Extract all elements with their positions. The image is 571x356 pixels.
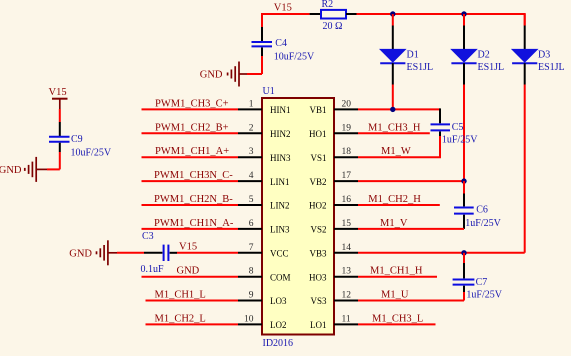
svg-text:HO2: HO2 xyxy=(309,201,327,211)
svg-text:C6: C6 xyxy=(476,204,488,215)
wire D3 cathode to VB3 net xyxy=(524,85,526,253)
svg-text:M1_CH3_L: M1_CH3_L xyxy=(372,313,423,324)
wire pin12 VS3 xyxy=(358,300,464,302)
wire pin19 HO1 xyxy=(358,132,430,134)
svg-text:PWM1_CH2_B+: PWM1_CH2_B+ xyxy=(155,122,229,133)
U1 pin 11 (LO1) xyxy=(334,323,358,325)
svg-text:VS1: VS1 xyxy=(310,153,326,163)
svg-text:R2: R2 xyxy=(322,0,334,10)
svg-text:VB2: VB2 xyxy=(309,177,326,187)
svg-text:C3: C3 xyxy=(142,231,154,242)
svg-text:5: 5 xyxy=(249,195,254,205)
wire net pin 2 xyxy=(142,132,239,134)
svg-text:8: 8 xyxy=(249,267,254,277)
U1 pin 7 (VCC) xyxy=(238,252,262,254)
svg-text:PWM1_CH2N_B-: PWM1_CH2N_B- xyxy=(154,194,233,205)
svg-text:ID2016: ID2016 xyxy=(263,338,294,349)
U1 pin 3 (HIN3) xyxy=(238,156,262,158)
wire pin15 VS2 xyxy=(358,228,464,230)
svg-text:2: 2 xyxy=(249,123,254,133)
wire top rail xyxy=(357,13,525,15)
svg-text:7: 7 xyxy=(249,243,254,253)
power ground GND (at C3) xyxy=(97,240,118,265)
svg-text:C4: C4 xyxy=(275,38,287,49)
capacitor C3 xyxy=(144,252,162,254)
svg-text:GND: GND xyxy=(200,70,223,81)
wire GND to C3 xyxy=(117,252,144,254)
wire top rail corner down xyxy=(524,13,526,26)
svg-text:V15: V15 xyxy=(49,87,67,98)
svg-text:C9: C9 xyxy=(71,134,83,145)
svg-text:V15: V15 xyxy=(274,3,292,14)
svg-text:D2: D2 xyxy=(478,50,490,61)
svg-text:M1_V: M1_V xyxy=(380,218,408,229)
U1 pin 6 (LIN3) xyxy=(238,228,262,230)
svg-text:19: 19 xyxy=(342,123,352,133)
svg-text:VCC: VCC xyxy=(270,249,289,259)
wire pin17 VB2 xyxy=(358,180,464,182)
wire V15 to C9 xyxy=(59,109,61,122)
svg-text:1uF/25V: 1uF/25V xyxy=(465,218,501,229)
U1 pin 2 (HIN2) xyxy=(238,132,262,134)
svg-text:1uF/25V: 1uF/25V xyxy=(442,134,478,145)
svg-text:17: 17 xyxy=(342,171,352,181)
svg-text:M1_CH2_H: M1_CH2_H xyxy=(368,194,421,205)
IC U1 (gate driver) body xyxy=(262,98,334,335)
U1 pin 20 (VB1) xyxy=(334,108,358,110)
wire net pin 4 xyxy=(142,180,239,182)
svg-text:15: 15 xyxy=(342,219,352,229)
wire net pin 3 xyxy=(142,156,239,158)
wire D2 cathode to VB2 net xyxy=(463,85,465,182)
svg-text:HIN1: HIN1 xyxy=(270,105,291,115)
wire net pin 8 xyxy=(142,276,239,278)
svg-text:LO3: LO3 xyxy=(270,296,287,306)
U1 pin 5 (LIN2) xyxy=(238,204,262,206)
svg-text:ES1JL: ES1JL xyxy=(538,62,565,73)
svg-text:VB3: VB3 xyxy=(309,249,327,259)
svg-text:M1_CH1_L: M1_CH1_L xyxy=(155,290,206,301)
U1 pin 16 (HO2) xyxy=(334,204,358,206)
svg-text:M1_U: M1_U xyxy=(381,290,409,301)
svg-text:GND: GND xyxy=(69,249,92,260)
svg-text:COM: COM xyxy=(270,272,291,282)
wire V15 to R2 xyxy=(261,13,310,15)
U1 pin 17 (VB2) xyxy=(334,180,358,182)
junction VB3 / C7 xyxy=(461,250,466,255)
svg-text:9: 9 xyxy=(249,291,254,301)
svg-text:3: 3 xyxy=(249,147,254,157)
svg-text:PWM1_CH3_C+: PWM1_CH3_C+ xyxy=(155,98,229,109)
U1 pin 18 (VS1) xyxy=(334,156,358,158)
power ground GND (at C4) xyxy=(228,62,247,87)
capacitor C4 xyxy=(261,27,263,41)
wire pin16 HO2 xyxy=(358,204,440,206)
svg-text:11: 11 xyxy=(342,314,351,324)
resistor R2 xyxy=(310,13,321,15)
U1 pin 14 (VB3) xyxy=(334,252,358,254)
svg-text:14: 14 xyxy=(342,243,352,253)
svg-text:GND: GND xyxy=(0,165,22,176)
diode D2 (ES1JL) xyxy=(463,14,465,26)
svg-text:LO2: LO2 xyxy=(270,320,287,330)
U1 pin 4 (LIN1) xyxy=(238,180,262,182)
svg-text:VS3: VS3 xyxy=(310,296,327,306)
svg-text:PWM1_CH1_A+: PWM1_CH1_A+ xyxy=(155,146,229,157)
svg-text:HIN3: HIN3 xyxy=(270,153,291,163)
wire to GND (C9) xyxy=(47,168,60,170)
wire net pin 9 xyxy=(146,300,239,302)
svg-text:M1_CH3_H: M1_CH3_H xyxy=(368,122,421,133)
wire net pin 1 xyxy=(142,108,239,110)
wire pin18 VS1 xyxy=(358,156,441,158)
U1 pin 9 (LO3) xyxy=(238,300,262,302)
svg-text:VB1: VB1 xyxy=(309,105,326,115)
svg-text:V15: V15 xyxy=(179,241,197,252)
power ground GND (at C9) xyxy=(25,157,47,182)
wire C4 down xyxy=(261,56,263,74)
svg-text:PWM1_CH1N_A-: PWM1_CH1N_A- xyxy=(154,218,234,229)
svg-text:0.1uF: 0.1uF xyxy=(141,264,165,275)
svg-text:10uF/25V: 10uF/25V xyxy=(274,52,315,63)
U1 pin 10 (LO2) xyxy=(238,323,262,325)
svg-text:HO3: HO3 xyxy=(309,272,327,282)
svg-text:GND: GND xyxy=(177,265,200,276)
U1 pin 19 (HO1) xyxy=(334,132,358,134)
capacitor C5 xyxy=(439,108,441,123)
junction VB1 / D1 xyxy=(390,107,395,112)
U1 pin 8 (COM) xyxy=(238,276,262,278)
wire C9 down xyxy=(59,152,61,169)
diode D1 (ES1JL) xyxy=(392,14,394,26)
capacitor C7 xyxy=(463,253,465,263)
svg-text:20 Ω: 20 Ω xyxy=(323,21,343,32)
svg-text:LIN1: LIN1 xyxy=(270,177,290,187)
wire to GND (C4) xyxy=(247,73,262,75)
svg-text:10uF/25V: 10uF/25V xyxy=(71,147,112,158)
svg-text:1: 1 xyxy=(249,99,254,109)
wire C5 to pin18 net xyxy=(439,136,441,157)
U1 pin 15 (VS2) xyxy=(334,228,358,230)
svg-text:M1_CH2_L: M1_CH2_L xyxy=(155,313,206,324)
U1 pin 1 (HIN1) xyxy=(238,108,262,110)
svg-text:LIN3: LIN3 xyxy=(270,225,290,235)
svg-text:C7: C7 xyxy=(476,277,488,288)
svg-text:M1_CH1_H: M1_CH1_H xyxy=(370,266,423,277)
svg-text:10: 10 xyxy=(244,314,254,324)
wire top corner down xyxy=(261,13,263,27)
wire D1 cathode to VB1 net xyxy=(392,85,394,110)
U1 pin 12 (VS3) xyxy=(334,300,358,302)
svg-text:D3: D3 xyxy=(538,50,550,61)
svg-text:13: 13 xyxy=(342,267,352,277)
svg-text:C5: C5 xyxy=(452,122,464,133)
wire net pin 6 xyxy=(142,228,239,230)
svg-text:HIN2: HIN2 xyxy=(270,129,291,139)
svg-text:LIN2: LIN2 xyxy=(270,201,290,211)
wire pin14 VB3 xyxy=(358,252,525,254)
svg-text:4: 4 xyxy=(249,171,254,181)
diode D3 (ES1JL) xyxy=(524,14,526,26)
capacitor C6 xyxy=(463,181,465,193)
wire net pin 10 xyxy=(146,323,239,325)
svg-text:ES1JL: ES1JL xyxy=(478,62,505,73)
svg-text:18: 18 xyxy=(342,147,352,157)
junction VB2 / D2 / C6 xyxy=(461,178,466,183)
wire C3 to pin7 xyxy=(177,252,238,254)
svg-text:M1_W: M1_W xyxy=(381,146,411,157)
capacitor C9 xyxy=(59,122,61,136)
svg-text:16: 16 xyxy=(342,195,352,205)
wire pin13 HO3 xyxy=(358,276,437,278)
svg-text:HO1: HO1 xyxy=(309,129,327,139)
wire net pin 5 xyxy=(142,204,239,206)
wire pin11 LO1 xyxy=(358,323,436,325)
svg-text:12: 12 xyxy=(342,291,352,301)
junction top rail / D1 xyxy=(390,11,395,16)
U1 pin 13 (HO3) xyxy=(334,276,358,278)
junction top rail / D2 xyxy=(461,11,466,16)
svg-text:PWM1_CH3N_C-: PWM1_CH3N_C- xyxy=(154,170,233,181)
svg-text:LO1: LO1 xyxy=(310,320,327,330)
svg-text:6: 6 xyxy=(249,219,254,229)
wire pin20 VB1 xyxy=(358,108,440,110)
svg-text:1uF/25V: 1uF/25V xyxy=(466,290,502,301)
svg-text:U1: U1 xyxy=(263,86,275,97)
svg-text:ES1JL: ES1JL xyxy=(407,62,434,73)
svg-text:D1: D1 xyxy=(407,50,419,61)
svg-text:VS2: VS2 xyxy=(310,225,326,235)
svg-text:20: 20 xyxy=(342,99,352,109)
